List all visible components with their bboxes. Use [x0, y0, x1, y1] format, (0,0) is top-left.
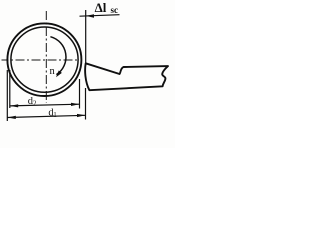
svg-text:n: n [50, 66, 56, 77]
svg-text:1: 1 [53, 111, 57, 119]
svg-text:Δl: Δl [95, 0, 107, 15]
svg-text:2: 2 [33, 100, 37, 108]
svg-text:sc: sc [111, 5, 119, 15]
